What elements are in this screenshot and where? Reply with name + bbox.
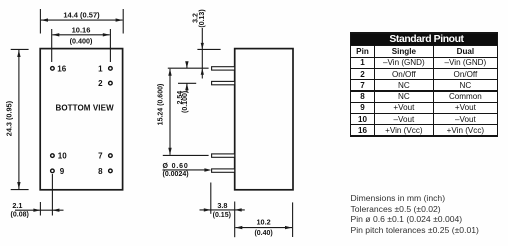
dimension 24.3 (0.95) height	[4, 49, 28, 189]
pin 7	[98, 152, 112, 161]
dimension 10.2 (0.40) depth	[235, 202, 292, 237]
side view pin 9 lead	[212, 169, 235, 172]
svg-text:14.4 (0.57): 14.4 (0.57)	[63, 10, 100, 19]
svg-text:1: 1	[98, 64, 103, 73]
svg-text:8: 8	[98, 167, 103, 176]
standard pinout table	[350, 32, 499, 137]
BOTTOM VIEW label	[55, 104, 114, 113]
pin 10	[51, 152, 68, 161]
svg-text:10.16: 10.16	[72, 26, 91, 35]
svg-text:7: 7	[98, 152, 103, 161]
dimension 3.8 (0.15) pin length	[200, 183, 245, 238]
pin 1 center extension line	[168, 67, 209, 69]
svg-text:(0.0024): (0.0024)	[163, 171, 189, 178]
dimension 15.24 (0.600) pin span	[158, 69, 209, 156]
svg-text:Ø 0.60: Ø 0.60	[163, 163, 189, 170]
pin 1	[98, 64, 112, 73]
svg-text:(0.40): (0.40)	[254, 230, 272, 237]
pin 2	[98, 79, 112, 88]
side view pin 1 lead	[212, 67, 235, 70]
pin diameter label 0.60 (0.0024)	[163, 163, 212, 178]
pin 9	[51, 167, 65, 176]
svg-text:10.2: 10.2	[256, 217, 270, 226]
dimension 14.4 (0.57) width	[40, 9, 123, 34]
pin 8	[98, 167, 112, 176]
side view case outline	[235, 49, 293, 190]
svg-text:BOTTOM VIEW: BOTTOM VIEW	[55, 104, 114, 113]
svg-text:3.8: 3.8	[217, 201, 227, 210]
svg-text:2: 2	[98, 79, 103, 88]
side view pin 2 lead	[212, 81, 235, 84]
svg-text:(0.15): (0.15)	[213, 212, 231, 219]
svg-text:16: 16	[57, 64, 66, 73]
bottom view package outline	[40, 49, 122, 190]
notes text block	[351, 193, 479, 235]
dimension 2.54 (0.100) pin pitch side	[177, 61, 196, 113]
svg-text:2.1: 2.1	[12, 201, 22, 210]
svg-text:(0.400): (0.400)	[70, 36, 93, 45]
pin 16	[51, 64, 67, 73]
dimension 10.16 (0.400) pin pitch	[52, 26, 111, 62]
svg-text:(0.100): (0.100)	[182, 91, 189, 113]
dimension 3.2 (0.13) top to pin	[192, 9, 220, 78]
svg-text:(0.08): (0.08)	[11, 212, 29, 219]
svg-text:10: 10	[58, 152, 67, 161]
svg-text:24.3 (0.95): 24.3 (0.95)	[4, 100, 13, 136]
dimension 2.1 (0.08) pin offset	[11, 174, 64, 219]
svg-text:15.24 (0.600): 15.24 (0.600)	[158, 84, 165, 126]
svg-text:9: 9	[60, 167, 65, 176]
side view pin 10 lead	[212, 154, 235, 157]
svg-text:(0.13): (0.13)	[199, 9, 206, 27]
